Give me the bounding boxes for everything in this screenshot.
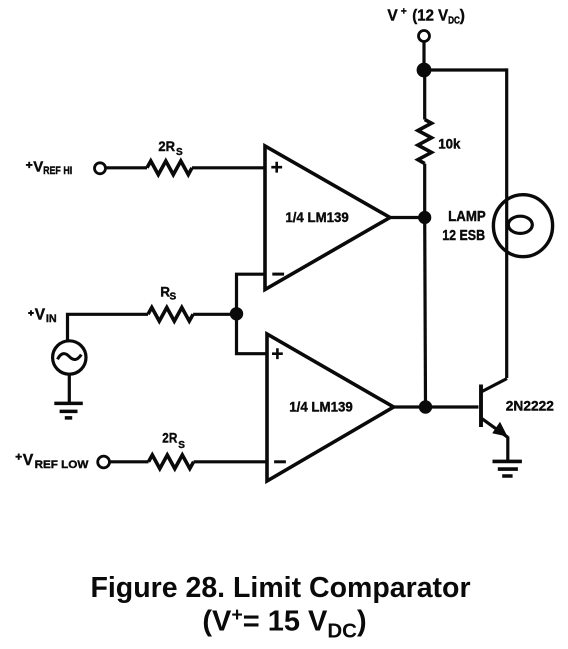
node +VREF LOW label — [16, 454, 22, 460]
wire U1 minus input — [237, 274, 266, 314]
junction U1 output — [418, 211, 431, 224]
lamp (circle) — [493, 195, 552, 257]
U2 plus input symbol — [272, 348, 283, 359]
wire joining both comparator outputs — [423, 218, 427, 408]
terminal V+ — [419, 31, 430, 42]
svg-text:1/4 LM139: 1/4 LM139 — [289, 400, 352, 416]
svg-text:S: S — [178, 440, 185, 451]
junction V+ branch — [417, 63, 432, 78]
resistor 10k — [418, 120, 432, 164]
svg-text:): ) — [460, 7, 465, 24]
wire resistor 10k to output node — [423, 164, 426, 218]
wire VIN corner — [68, 314, 149, 341]
svg-text:2R: 2R — [158, 139, 175, 154]
wire junction down to resistor 10k — [423, 70, 426, 120]
svg-text:V: V — [23, 452, 34, 469]
svg-text:+: + — [401, 7, 407, 18]
Q1 emitter arrow — [492, 422, 507, 437]
ground (emitter) — [493, 461, 522, 476]
wire V+ to junction — [422, 41, 425, 70]
svg-text:1/4 LM139: 1/4 LM139 — [285, 210, 348, 226]
source VIN sine generator — [53, 341, 86, 374]
wire U2 output — [394, 405, 426, 408]
U1 minus input symbol — [272, 273, 284, 276]
resistor RS — [148, 308, 193, 322]
svg-text:2N2222: 2N2222 — [506, 398, 554, 413]
wire right branch vertical (lamp/collector) — [505, 68, 508, 378]
terminal VREF HI — [95, 163, 106, 174]
wire emitter to ground — [506, 437, 509, 461]
svg-text:V: V — [33, 159, 43, 176]
lamp filament loop — [508, 216, 532, 233]
svg-text:(V+= 15 VDC): (V+= 15 VDC) — [202, 604, 366, 643]
wire source to ground — [68, 374, 71, 403]
junction VIN — [230, 307, 243, 320]
svg-text:(12 V: (12 V — [412, 7, 448, 24]
svg-text:S: S — [176, 147, 183, 158]
op-amp U1 (top 1/4 LM139) — [265, 146, 390, 290]
sine wave symbol — [58, 354, 82, 360]
wire resistor RS to junction — [193, 313, 236, 316]
wire resistor to U2 minus — [194, 460, 267, 463]
wire junction to right branch — [424, 68, 507, 71]
node +VREF HI label — [26, 162, 33, 168]
ground (source) — [54, 403, 83, 418]
terminal VREF LOW — [98, 456, 110, 468]
transistor Q1 2N2222 base bar — [479, 385, 483, 428]
wire junction down to U2 plus — [237, 314, 268, 354]
wire terminal to resistor — [109, 460, 148, 463]
U2 minus input symbol — [274, 460, 286, 463]
svg-text:V: V — [387, 7, 398, 24]
op-amp U2 (bottom 1/4 LM139) — [267, 334, 394, 481]
node +VIN label — [28, 310, 34, 316]
svg-text:DC: DC — [448, 15, 460, 26]
svg-text:12 ESB: 12 ESB — [442, 228, 485, 244]
svg-text:10k: 10k — [438, 136, 460, 152]
svg-text:LAMP: LAMP — [448, 209, 486, 225]
Q1 collector diagonal — [482, 379, 507, 392]
U1 plus input symbol — [271, 162, 282, 173]
svg-text:Figure 28. Limit Comparator: Figure 28. Limit Comparator — [90, 572, 470, 604]
Q1 emitter diagonal — [482, 419, 508, 438]
svg-text:2R: 2R — [162, 431, 177, 446]
resistor 2RS (top) — [147, 161, 192, 175]
svg-text:S: S — [170, 292, 177, 303]
wire terminal to resistor — [106, 166, 148, 169]
junction U2 output — [419, 400, 432, 413]
resistor 2RS (bottom) — [149, 455, 194, 469]
wire resistor to U1 plus — [192, 166, 265, 169]
svg-text:REF HI: REF HI — [43, 165, 72, 177]
wire U1 output — [390, 216, 425, 219]
svg-text:IN: IN — [46, 313, 57, 325]
wire output node to base — [426, 405, 479, 408]
svg-text:REF LOW: REF LOW — [35, 459, 90, 471]
svg-text:V: V — [35, 307, 46, 324]
